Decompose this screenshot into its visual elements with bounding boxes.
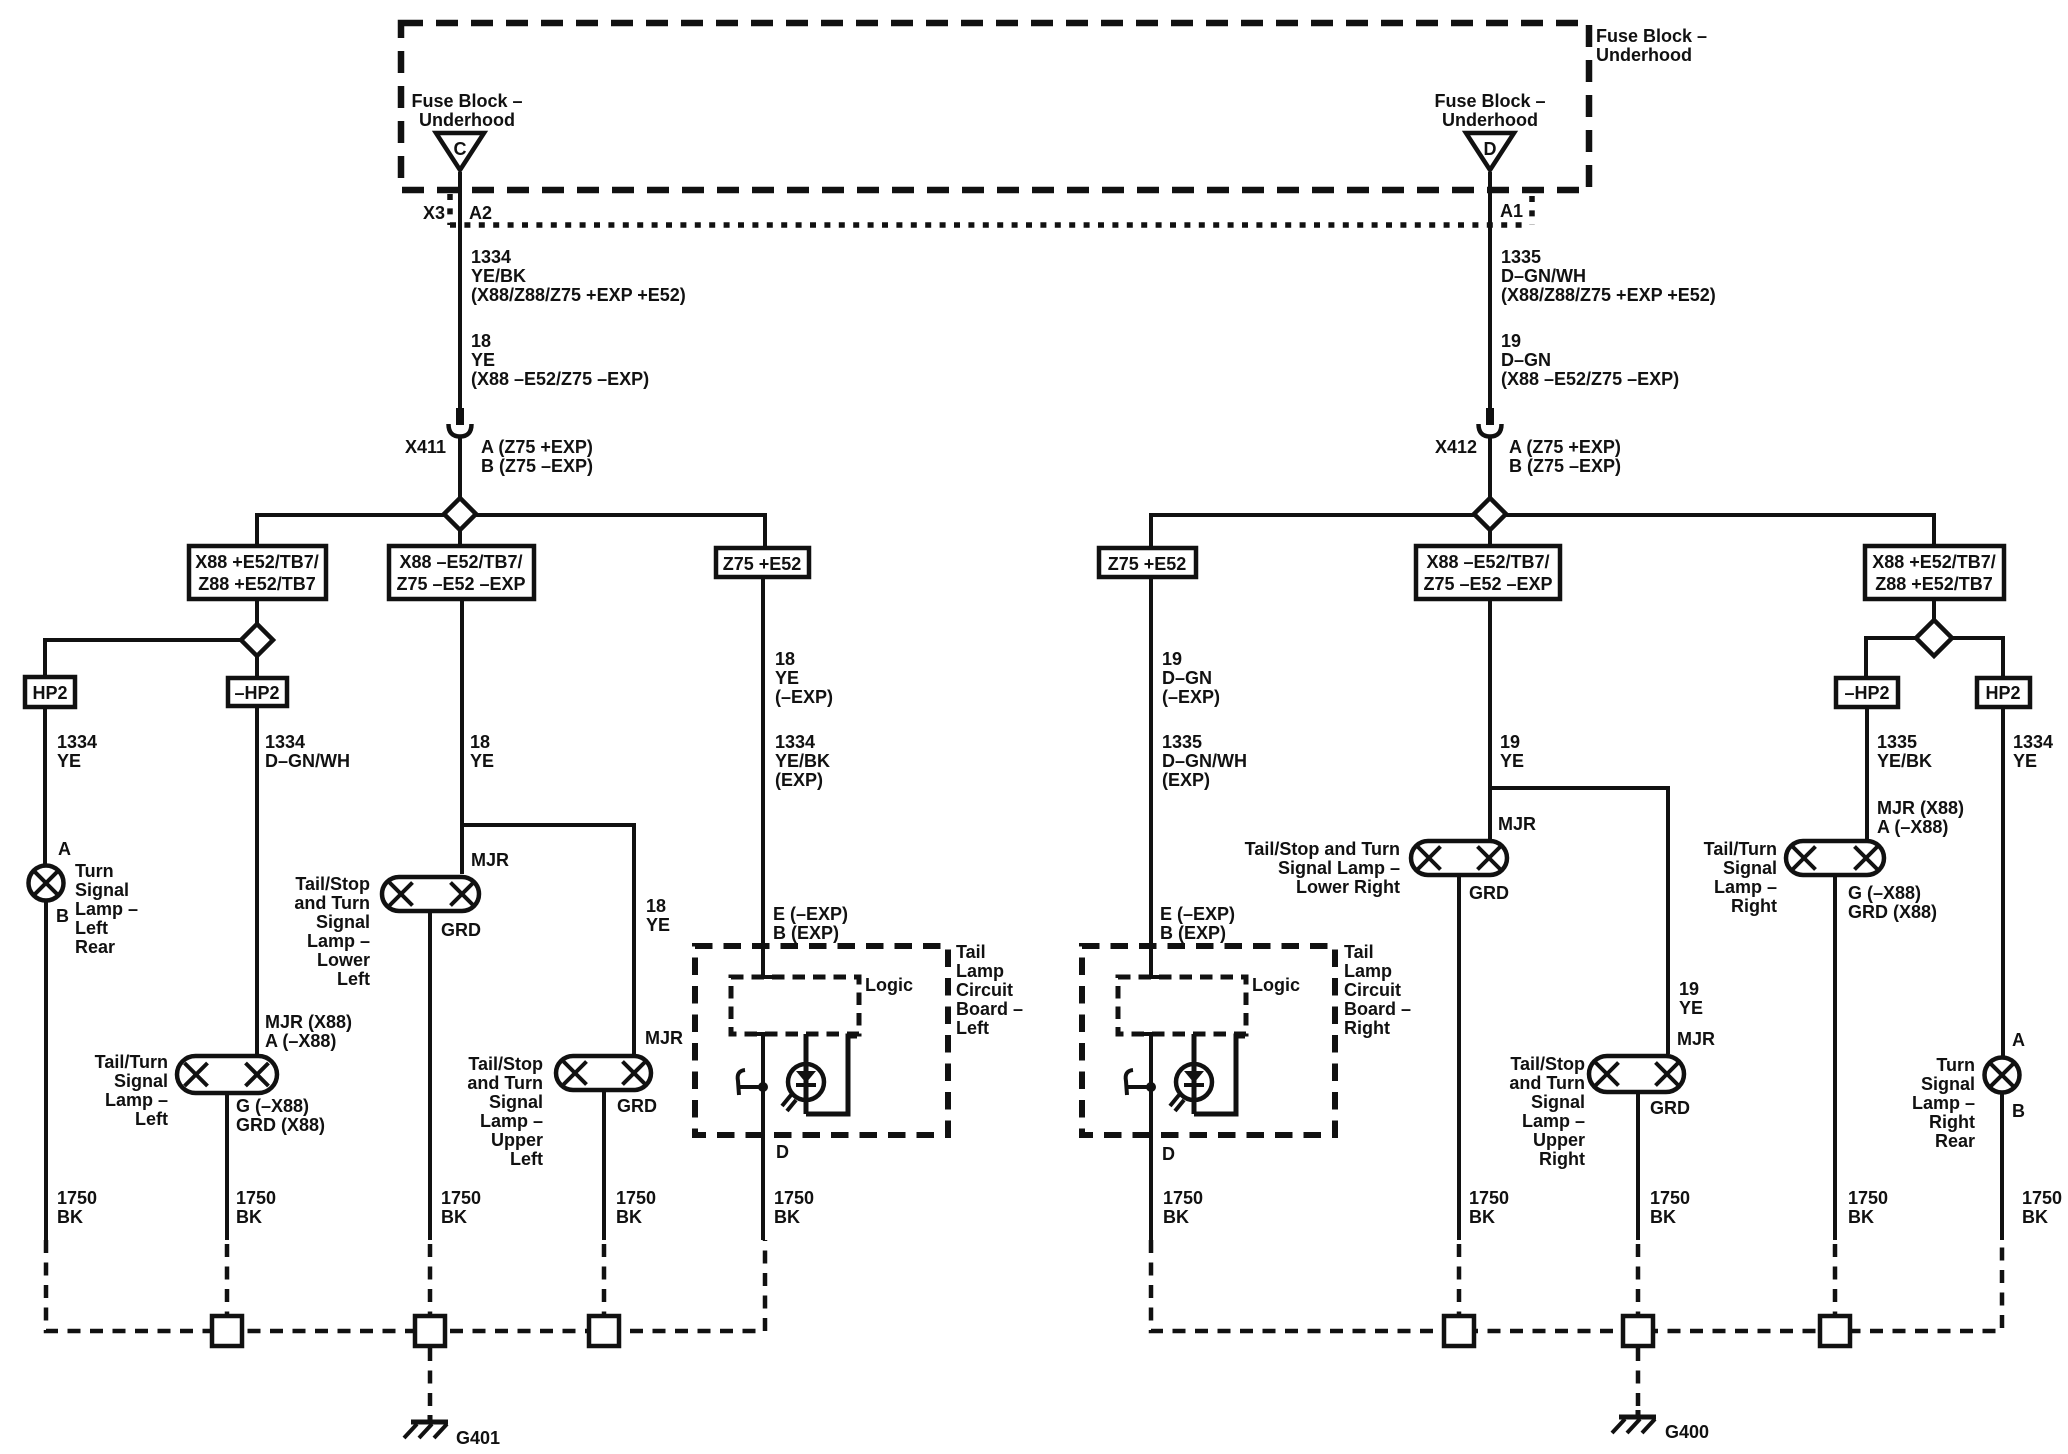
svg-text:(X88/Z88/Z75 +EXP +E52): (X88/Z88/Z75 +EXP +E52) [471, 285, 686, 305]
svg-text:YE: YE [1679, 998, 1703, 1018]
svg-text:Lamp –: Lamp – [1522, 1111, 1585, 1131]
svg-text:1334: 1334 [471, 247, 511, 267]
LED [788, 1064, 824, 1100]
tail lamp circuit board dashed box [1082, 946, 1335, 1135]
svg-text:A1: A1 [1500, 201, 1523, 221]
splice split to HP2 [45, 640, 241, 675]
wire [761, 579, 765, 946]
svg-text:Tail: Tail [956, 942, 986, 962]
logic block [731, 977, 859, 1034]
fuse block underhood dashed box [401, 23, 1589, 190]
svg-text:1750: 1750 [236, 1188, 276, 1208]
svg-text:Circuit: Circuit [1344, 980, 1401, 1000]
connector X3 dotted boundary [447, 194, 453, 225]
svg-text:Underhood: Underhood [1596, 45, 1692, 65]
lamp: tail/turn signal lamp left [177, 1056, 277, 1093]
svg-text:1335: 1335 [1877, 732, 1917, 752]
ground symbol G401 [428, 1415, 433, 1422]
svg-text:Underhood: Underhood [1442, 110, 1538, 130]
splice diamond [241, 624, 273, 656]
svg-text:19: 19 [1679, 979, 1699, 999]
dashed drops [1457, 1244, 1462, 1314]
wire [458, 438, 462, 514]
svg-text:Z75 +E52: Z75 +E52 [1108, 554, 1187, 574]
svg-text:B (Z75 –EXP): B (Z75 –EXP) [1509, 456, 1621, 476]
wire [1488, 601, 1492, 839]
wire [1932, 601, 1936, 620]
svg-text:B (EXP): B (EXP) [773, 923, 839, 943]
svg-text:Signal Lamp –: Signal Lamp – [1278, 858, 1400, 878]
lamp: tail/turn signal lamp right [1786, 841, 1884, 875]
svg-text:1750: 1750 [1469, 1188, 1509, 1208]
svg-text:Tail/Stop: Tail/Stop [468, 1054, 543, 1074]
wire [458, 530, 462, 544]
svg-text:Lamp –: Lamp – [1714, 877, 1777, 897]
svg-text:(EXP): (EXP) [1162, 770, 1210, 790]
svg-text:18: 18 [775, 649, 795, 669]
svg-text:1750: 1750 [441, 1188, 481, 1208]
lamp: tail/stop and turn signal lamp upper right [1589, 1056, 1684, 1092]
svg-text:B: B [56, 906, 69, 926]
svg-text:Board –: Board – [1344, 999, 1411, 1019]
svg-text:Left: Left [135, 1109, 168, 1129]
wire from D [1488, 172, 1492, 408]
svg-text:and Turn: and Turn [1509, 1073, 1585, 1093]
wire GRD down [225, 1095, 229, 1240]
svg-text:Lamp –: Lamp – [1912, 1093, 1975, 1113]
svg-text:YE: YE [1500, 751, 1524, 771]
lamp: tail/stop and turn signal lamp lower right [1411, 841, 1507, 875]
wire [1865, 709, 1869, 839]
option box -HP2 [228, 678, 287, 706]
LED return leg [806, 1036, 857, 1114]
lamp: turn signal lamp left rear [29, 866, 64, 901]
svg-text:GRD: GRD [617, 1096, 657, 1116]
junction squares [1444, 1316, 1474, 1346]
wire [1149, 579, 1153, 946]
wire GRD down [602, 1092, 606, 1240]
option box Z75+E52 right [1099, 548, 1196, 577]
wire out of logic [1141, 1032, 1161, 1036]
left ground bus [46, 1240, 765, 1331]
option box -HP2 right [1836, 678, 1898, 707]
svg-text:YE: YE [57, 751, 81, 771]
wire [460, 601, 464, 874]
svg-text:(–EXP): (–EXP) [1162, 687, 1220, 707]
svg-text:YE: YE [646, 915, 670, 935]
right ground bus [1151, 1240, 2002, 1331]
svg-text:Z75 +E52: Z75 +E52 [723, 554, 802, 574]
svg-text:Left: Left [510, 1149, 543, 1169]
svg-text:1750: 1750 [57, 1188, 97, 1208]
svg-text:Tail/Turn: Tail/Turn [95, 1052, 168, 1072]
inline connector X412 [1486, 408, 1494, 425]
svg-text:MJR (X88): MJR (X88) [265, 1012, 352, 1032]
wire [1488, 438, 1492, 514]
svg-text:D–GN/WH: D–GN/WH [1501, 266, 1586, 286]
svg-text:19: 19 [1162, 649, 1182, 669]
svg-text:E (–EXP): E (–EXP) [1160, 904, 1235, 924]
wire into logic [1149, 941, 1153, 977]
svg-text:B (Z75 –EXP): B (Z75 –EXP) [481, 456, 593, 476]
svg-text:A2: A2 [469, 203, 492, 223]
svg-text:B (EXP): B (EXP) [1160, 923, 1226, 943]
svg-text:Rear: Rear [1935, 1131, 1975, 1151]
svg-text:19: 19 [1501, 331, 1521, 351]
junction squares [212, 1316, 242, 1346]
svg-text:A (–X88): A (–X88) [265, 1031, 336, 1051]
wire [255, 601, 259, 624]
option box Z75+E52 left [716, 548, 809, 577]
svg-text:18: 18 [471, 331, 491, 351]
svg-text:Left: Left [337, 969, 370, 989]
svg-text:MJR: MJR [645, 1028, 683, 1048]
svg-text:Tail/Stop: Tail/Stop [1510, 1054, 1585, 1074]
svg-text:Lamp: Lamp [1344, 961, 1392, 981]
option box HP2 right [1977, 678, 2030, 707]
svg-text:X412: X412 [1435, 437, 1477, 457]
svg-text:GRD (X88): GRD (X88) [236, 1115, 325, 1135]
svg-text:A (–X88): A (–X88) [1877, 817, 1948, 837]
svg-text:Lamp: Lamp [956, 961, 1004, 981]
svg-text:Rear: Rear [75, 937, 115, 957]
dashed drops [225, 1244, 230, 1314]
svg-text:Fuse Block –: Fuse Block – [1434, 91, 1545, 111]
svg-text:Right: Right [1344, 1018, 1390, 1038]
svg-text:Signal: Signal [75, 880, 129, 900]
svg-text:Signal: Signal [316, 912, 370, 932]
svg-text:Logic: Logic [865, 975, 913, 995]
svg-text:X3: X3 [423, 203, 445, 223]
switch contact [739, 1085, 763, 1089]
svg-text:Lamp –: Lamp – [75, 899, 138, 919]
svg-text:X88 –E52/TB7/: X88 –E52/TB7/ [1426, 552, 1549, 572]
svg-text:D–GN/WH: D–GN/WH [1162, 751, 1247, 771]
lamp: tail/stop and turn signal lamp upper left [556, 1056, 651, 1090]
svg-text:Logic: Logic [1252, 975, 1300, 995]
svg-text:Tail: Tail [1344, 942, 1374, 962]
splice diamond [444, 498, 476, 530]
wire [255, 656, 259, 676]
svg-text:GRD (X88): GRD (X88) [1848, 902, 1937, 922]
svg-text:D–GN/WH: D–GN/WH [265, 751, 350, 771]
svg-text:1750: 1750 [1650, 1188, 1690, 1208]
svg-text:C: C [454, 139, 467, 159]
svg-text:BK: BK [1650, 1207, 1676, 1227]
svg-text:Z75 –E52 –EXP: Z75 –E52 –EXP [1423, 574, 1552, 594]
svg-text:Tail/Stop: Tail/Stop [295, 874, 370, 894]
svg-text:GRD: GRD [1650, 1098, 1690, 1118]
svg-text:BK: BK [774, 1207, 800, 1227]
svg-text:Underhood: Underhood [419, 110, 515, 130]
svg-text:D: D [776, 1142, 789, 1162]
svg-text:(X88 –E52/Z75 –EXP): (X88 –E52/Z75 –EXP) [1501, 369, 1679, 389]
svg-text:X411: X411 [405, 437, 446, 457]
svg-text:Right: Right [1539, 1149, 1585, 1169]
svg-text:D: D [1484, 139, 1497, 159]
wire out of logic [753, 1032, 773, 1036]
svg-text:HP2: HP2 [1985, 683, 2020, 703]
svg-text:18: 18 [646, 896, 666, 916]
svg-text:Tail/Stop and Turn: Tail/Stop and Turn [1245, 839, 1400, 859]
wire below lamp [44, 902, 48, 1240]
svg-text:BK: BK [2022, 1207, 2048, 1227]
connector triangle C [436, 133, 484, 170]
svg-text:A (Z75 +EXP): A (Z75 +EXP) [481, 437, 593, 457]
svg-text:Board –: Board – [956, 999, 1023, 1019]
svg-text:BK: BK [616, 1207, 642, 1227]
svg-text:Turn: Turn [1936, 1055, 1975, 1075]
svg-text:Signal: Signal [114, 1071, 168, 1091]
svg-text:1335: 1335 [1162, 732, 1202, 752]
svg-text:E (–EXP): E (–EXP) [773, 904, 848, 924]
svg-text:YE/BK: YE/BK [775, 751, 830, 771]
option box HP2 [25, 677, 75, 707]
svg-text:1750: 1750 [2022, 1188, 2062, 1208]
svg-text:18: 18 [470, 732, 490, 752]
svg-text:A (Z75 +EXP): A (Z75 +EXP) [1509, 437, 1621, 457]
svg-text:1335: 1335 [1501, 247, 1541, 267]
svg-text:D: D [1162, 1144, 1175, 1164]
svg-text:MJR (X88): MJR (X88) [1877, 798, 1964, 818]
wire GRD down [1833, 877, 1837, 1240]
svg-text:YE: YE [775, 668, 799, 688]
wire HP2 down [43, 709, 47, 864]
svg-text:1750: 1750 [774, 1188, 814, 1208]
LED [1176, 1064, 1212, 1100]
svg-text:YE: YE [2013, 751, 2037, 771]
svg-text:GRD: GRD [441, 920, 481, 940]
svg-text:(X88 –E52/Z75 –EXP): (X88 –E52/Z75 –EXP) [471, 369, 649, 389]
svg-text:Fuse Block –: Fuse Block – [411, 91, 522, 111]
svg-text:Lower Right: Lower Right [1296, 877, 1400, 897]
svg-text:1334: 1334 [265, 732, 305, 752]
svg-text:G401: G401 [456, 1428, 500, 1448]
svg-text:Fuse Block –: Fuse Block – [1596, 26, 1707, 46]
svg-text:YE: YE [471, 350, 495, 370]
svg-text:HP2: HP2 [32, 683, 67, 703]
svg-text:Left: Left [956, 1018, 989, 1038]
svg-text:BK: BK [1469, 1207, 1495, 1227]
svg-text:BK: BK [441, 1207, 467, 1227]
svg-text:Right: Right [1731, 896, 1777, 916]
wire [2001, 709, 2005, 1056]
svg-text:G (–X88): G (–X88) [1848, 883, 1921, 903]
svg-text:Signal: Signal [1921, 1074, 1975, 1094]
svg-text:YE/BK: YE/BK [471, 266, 526, 286]
svg-text:Tail/Turn: Tail/Turn [1704, 839, 1777, 859]
branch to upper left lamp [462, 825, 634, 1054]
wire into logic [761, 941, 765, 977]
splice diamond [1916, 620, 1952, 656]
splice diamond [1474, 498, 1506, 530]
svg-text:Lamp –: Lamp – [480, 1111, 543, 1131]
tail lamp circuit board dashed box [695, 946, 948, 1135]
svg-text:MJR: MJR [1677, 1029, 1715, 1049]
svg-text:Z88 +E52/TB7: Z88 +E52/TB7 [198, 574, 316, 594]
svg-text:MJR: MJR [471, 850, 509, 870]
svg-text:(X88/Z88/Z75 +EXP +E52): (X88/Z88/Z75 +EXP +E52) [1501, 285, 1716, 305]
logic block [1118, 977, 1246, 1034]
svg-text:Right: Right [1929, 1112, 1975, 1132]
svg-text:and Turn: and Turn [294, 893, 370, 913]
svg-text:BK: BK [57, 1207, 83, 1227]
svg-text:G400: G400 [1665, 1422, 1709, 1442]
svg-text:Lamp –: Lamp – [307, 931, 370, 951]
svg-text:GRD: GRD [1469, 883, 1509, 903]
wire GRD down [428, 913, 432, 1240]
ground symbol G400 [1636, 1410, 1641, 1417]
ground stem G401 [428, 1348, 433, 1415]
svg-text:G (–X88): G (–X88) [236, 1096, 309, 1116]
svg-text:19: 19 [1500, 732, 1520, 752]
svg-text:A: A [58, 839, 71, 859]
wire GRD down [1457, 877, 1461, 1240]
svg-text:(EXP): (EXP) [775, 770, 823, 790]
ground stem G400 [1636, 1348, 1641, 1410]
svg-text:1750: 1750 [1163, 1188, 1203, 1208]
svg-text:YE: YE [470, 751, 494, 771]
svg-text:A: A [2012, 1030, 2025, 1050]
inline connector X411 [456, 408, 464, 425]
option box X88+E52 right [1865, 546, 2004, 599]
svg-text:1334: 1334 [2013, 732, 2053, 752]
svg-text:1750: 1750 [1848, 1188, 1888, 1208]
svg-text:X88 +E52/TB7/: X88 +E52/TB7/ [1872, 552, 1996, 572]
splice split [1866, 638, 2003, 676]
svg-text:Turn: Turn [75, 861, 114, 881]
option box X88-E52 right mid [1416, 546, 1560, 599]
svg-text:Circuit: Circuit [956, 980, 1013, 1000]
svg-text:Signal: Signal [1723, 858, 1777, 878]
svg-text:D–GN: D–GN [1501, 350, 1551, 370]
svg-text:Lower: Lower [317, 950, 370, 970]
svg-text:X88 –E52/TB7/: X88 –E52/TB7/ [399, 552, 522, 572]
svg-text:Upper: Upper [491, 1130, 543, 1150]
svg-text:X88 +E52/TB7/: X88 +E52/TB7/ [195, 552, 319, 572]
svg-text:BK: BK [236, 1207, 262, 1227]
svg-text:Z88 +E52/TB7: Z88 +E52/TB7 [1875, 574, 1993, 594]
wire [255, 708, 259, 1054]
splice split horizontal [1151, 515, 1934, 546]
svg-text:Signal: Signal [489, 1092, 543, 1112]
svg-text:Z75 –E52 –EXP: Z75 –E52 –EXP [396, 574, 525, 594]
svg-text:D–GN: D–GN [1162, 668, 1212, 688]
LED return leg [1194, 1036, 1245, 1114]
svg-text:1750: 1750 [616, 1188, 656, 1208]
connector triangle D [1466, 133, 1514, 170]
svg-text:MJR: MJR [1498, 814, 1536, 834]
wire below lamp [2000, 1094, 2004, 1240]
splice split horizontal [257, 515, 765, 546]
svg-text:Lamp –: Lamp – [105, 1090, 168, 1110]
svg-text:1334: 1334 [57, 732, 97, 752]
svg-text:Left: Left [75, 918, 108, 938]
svg-text:BK: BK [1848, 1207, 1874, 1227]
svg-text:BK: BK [1163, 1207, 1189, 1227]
svg-text:Upper: Upper [1533, 1130, 1585, 1150]
svg-text:(–EXP): (–EXP) [775, 687, 833, 707]
svg-text:1334: 1334 [775, 732, 815, 752]
wire GRD down [1636, 1094, 1640, 1240]
wire from C [458, 172, 462, 408]
svg-text:–HP2: –HP2 [234, 683, 279, 703]
svg-text:and Turn: and Turn [467, 1073, 543, 1093]
switch contact [1127, 1085, 1151, 1089]
svg-text:B: B [2012, 1101, 2025, 1121]
lamp: turn signal lamp right rear [1985, 1058, 2020, 1093]
lamp: tail/stop and turn signal lamp lower left [382, 877, 479, 911]
svg-text:–HP2: –HP2 [1844, 683, 1889, 703]
wire [1488, 530, 1492, 544]
branch to upper right lamp [1490, 788, 1668, 1054]
svg-text:YE/BK: YE/BK [1877, 751, 1932, 771]
svg-text:Signal: Signal [1531, 1092, 1585, 1112]
option box X88+E52 left [189, 546, 326, 599]
option box X88-E52 mid [389, 546, 534, 599]
